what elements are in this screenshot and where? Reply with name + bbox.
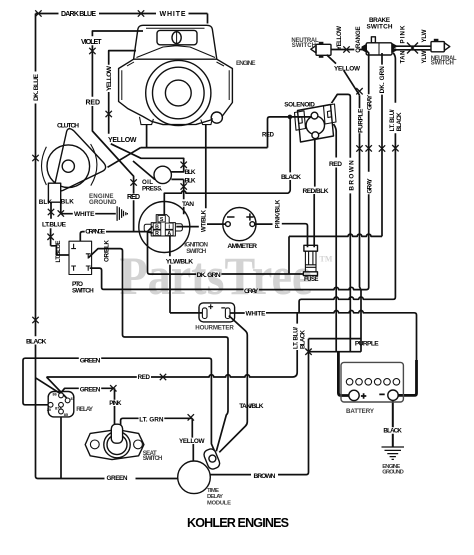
- svg-text:BLACK: BLACK: [281, 174, 301, 181]
- svg-text:S: S: [160, 217, 164, 223]
- svg-text:RELAY: RELAY: [76, 406, 94, 413]
- svg-text:BLK: BLK: [185, 169, 196, 176]
- svg-text:SWITCH: SWITCH: [431, 60, 454, 66]
- svg-text:RED: RED: [138, 374, 151, 381]
- svg-text:PURPLE: PURPLE: [355, 340, 379, 347]
- svg-text:PINK: PINK: [109, 400, 122, 407]
- svg-text:PINK: PINK: [400, 25, 407, 44]
- svg-text:TM: TM: [320, 255, 333, 264]
- svg-text:VIOLET: VIOLET: [81, 39, 102, 46]
- svg-text:GRAY: GRAY: [367, 178, 374, 194]
- svg-text:PRESS.: PRESS.: [142, 185, 163, 192]
- svg-text:A: A: [167, 231, 171, 237]
- svg-text:LT. GRN: LT. GRN: [139, 417, 164, 424]
- svg-text:BLACK: BLACK: [383, 428, 402, 435]
- svg-text:LT.BLUE: LT.BLUE: [55, 241, 62, 263]
- svg-text:HOURMETER: HOURMETER: [195, 324, 234, 331]
- svg-text:87: 87: [71, 397, 75, 401]
- svg-text:GREEN: GREEN: [107, 475, 128, 482]
- svg-text:YLW/BLK: YLW/BLK: [166, 259, 193, 266]
- svg-text:SOLENOID: SOLENOID: [284, 102, 315, 109]
- svg-text:YLW: YLW: [421, 50, 428, 63]
- svg-text:TAN: TAN: [400, 50, 407, 64]
- svg-text:KOHLER ENGINES: KOHLER ENGINES: [187, 516, 289, 530]
- svg-text:BROWN: BROWN: [254, 473, 276, 480]
- svg-text:SWITCH: SWITCH: [143, 456, 163, 462]
- svg-text:86: 86: [53, 393, 57, 397]
- svg-text:WHITE: WHITE: [246, 311, 267, 318]
- svg-text:SWITCH: SWITCH: [367, 24, 393, 31]
- svg-text:WHITE: WHITE: [74, 211, 95, 218]
- svg-text:BLACK: BLACK: [299, 329, 306, 349]
- svg-text:DELAY: DELAY: [207, 494, 223, 500]
- svg-text:SWITCH: SWITCH: [186, 248, 206, 255]
- svg-text:BROWN: BROWN: [348, 160, 355, 191]
- svg-text:GRAY: GRAY: [244, 288, 259, 295]
- svg-text:DK. BLUE: DK. BLUE: [33, 74, 40, 101]
- svg-text:BLACK: BLACK: [396, 112, 403, 132]
- svg-text:YELLOW: YELLOW: [108, 137, 137, 144]
- svg-text:DARK BLUE: DARK BLUE: [61, 11, 96, 18]
- svg-text:CLUTCH: CLUTCH: [57, 123, 79, 130]
- svg-text:AMMETER: AMMETER: [227, 243, 257, 250]
- svg-text:GROUND: GROUND: [382, 470, 404, 476]
- svg-text:RED: RED: [86, 100, 101, 107]
- svg-text:PURPLE: PURPLE: [357, 108, 364, 133]
- svg-text:TAN/BLK: TAN/BLK: [239, 403, 264, 410]
- svg-text:RED: RED: [262, 132, 275, 138]
- svg-text:GREEN: GREEN: [80, 387, 101, 394]
- svg-text:30: 30: [47, 408, 51, 412]
- svg-text:YELLOW: YELLOW: [336, 26, 343, 50]
- svg-text:GROUND: GROUND: [89, 199, 117, 206]
- svg-text:85: 85: [64, 413, 68, 417]
- svg-text:GREEN: GREEN: [80, 358, 101, 365]
- svg-text:MODULE: MODULE: [207, 501, 231, 507]
- svg-text:RED: RED: [127, 194, 140, 201]
- svg-text:OR/BLK: OR/BLK: [104, 239, 111, 262]
- svg-text:PINK/BLK: PINK/BLK: [275, 199, 282, 228]
- svg-text:RED/BLK: RED/BLK: [303, 188, 329, 195]
- svg-text:87A: 87A: [55, 406, 62, 410]
- svg-text:DK. GRN: DK. GRN: [379, 66, 386, 94]
- svg-text:ORANGE: ORANGE: [355, 26, 362, 53]
- svg-text:BLK: BLK: [61, 199, 75, 206]
- svg-text:R: R: [155, 231, 159, 237]
- svg-text:ENGINE: ENGINE: [236, 60, 256, 67]
- svg-text:YELLOW: YELLOW: [334, 66, 361, 73]
- svg-text:BATTERY: BATTERY: [346, 408, 375, 415]
- svg-text:YLW: YLW: [421, 29, 428, 42]
- svg-text:BLACK: BLACK: [26, 338, 46, 345]
- svg-text:SWITCH: SWITCH: [292, 43, 316, 49]
- svg-text:WHITE: WHITE: [160, 11, 186, 18]
- svg-text:LT.BLUE: LT.BLUE: [42, 222, 67, 229]
- svg-text:BLK: BLK: [39, 199, 53, 206]
- svg-text:TAN: TAN: [182, 201, 194, 208]
- svg-text:DK. GRN: DK. GRN: [197, 272, 221, 279]
- svg-text:BLK: BLK: [185, 177, 196, 184]
- svg-text:ORANGE: ORANGE: [85, 229, 106, 236]
- svg-text:RED: RED: [329, 161, 342, 168]
- svg-text:YELLOW: YELLOW: [106, 65, 113, 91]
- svg-text:YELLOW: YELLOW: [179, 438, 205, 445]
- svg-text:SWITCH: SWITCH: [72, 288, 94, 295]
- svg-text:GRAY: GRAY: [367, 94, 374, 110]
- svg-text:FUSE: FUSE: [304, 277, 319, 283]
- svg-text:WT/BLK: WT/BLK: [201, 209, 208, 232]
- svg-text:B: B: [155, 225, 159, 231]
